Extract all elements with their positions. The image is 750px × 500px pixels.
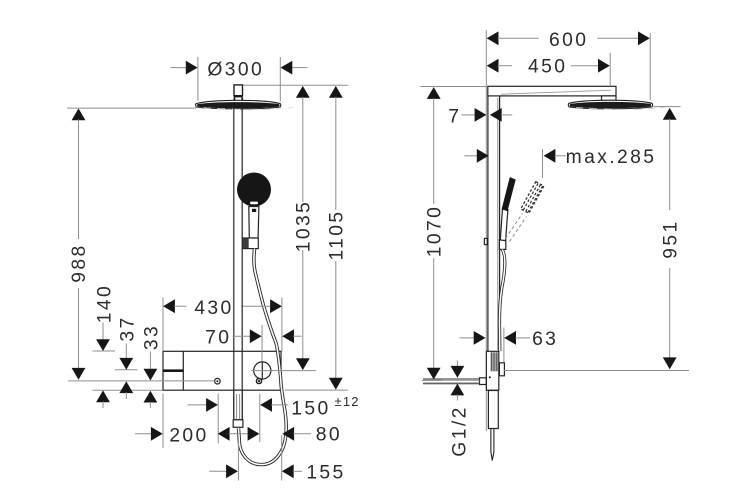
svg-text:450: 450 xyxy=(528,57,567,78)
arm end connector (side) xyxy=(602,96,617,105)
svg-text:80: 80 xyxy=(316,424,342,445)
reference line at arm top (1035/1105 top) xyxy=(243,84,348,86)
svg-text:63: 63 xyxy=(532,329,558,350)
svg-text:±12: ±12 xyxy=(335,394,360,409)
dimension 450 xyxy=(487,53,611,86)
RIGHT VIEW DIMS xyxy=(420,30,689,457)
RIGHT VIEW PARTS xyxy=(423,30,665,461)
hose outlet stub below bar (front) xyxy=(233,390,243,427)
reference line thick-line level extended (37 top stub) xyxy=(115,369,138,371)
svg-text:37: 37 xyxy=(117,315,138,341)
svg-text:Ø300: Ø300 xyxy=(207,59,264,80)
dimension 7 xyxy=(448,107,512,128)
dimension max.285 xyxy=(465,147,657,178)
reference line at head underside (988 top) xyxy=(67,107,196,109)
LEFT VIEW PARTS xyxy=(163,85,293,465)
dimension 1070 xyxy=(420,87,486,381)
dimension 155 xyxy=(209,435,345,483)
dimension G1/2 xyxy=(450,361,471,457)
riser pipe (side) xyxy=(488,96,500,351)
svg-text:70: 70 xyxy=(205,328,231,349)
reference line bar top stub (140 top) xyxy=(92,350,115,352)
block front handle (side) xyxy=(499,363,504,376)
svg-text:7: 7 xyxy=(448,107,461,128)
wall clip (side) xyxy=(484,238,487,244)
riser pipe (front) xyxy=(234,108,242,420)
dimension 430 xyxy=(163,298,282,352)
hand shower hose (side) xyxy=(499,250,504,352)
dimension 1035 xyxy=(294,86,315,370)
hand shower holder (side) xyxy=(499,240,505,250)
svg-text:600: 600 xyxy=(549,30,588,51)
dimension Ø300 xyxy=(171,57,308,102)
svg-text:951: 951 xyxy=(660,219,681,258)
dimension 951 xyxy=(504,107,689,371)
svg-text:988: 988 xyxy=(69,243,90,282)
reference line knob centerline (1035 bottom) xyxy=(251,370,316,372)
hose tail below block (side) xyxy=(491,429,494,461)
svg-text:G1/2: G1/2 xyxy=(450,405,471,456)
dimension 37 xyxy=(117,315,138,399)
hand shower handle (front) xyxy=(249,207,259,239)
overhead shower head disc (side) xyxy=(568,100,665,109)
dimension 33 xyxy=(141,324,162,408)
hand shower solid position (side) xyxy=(500,177,515,241)
svg-text:1035: 1035 xyxy=(294,200,315,253)
supply pipe G1/2 (side) xyxy=(423,379,480,384)
LEFT VIEW DIMS xyxy=(67,57,360,483)
svg-text:200: 200 xyxy=(169,425,208,446)
svg-text:1070: 1070 xyxy=(425,205,446,258)
dimension 200 and 80 xyxy=(135,394,342,449)
reference line bar bottom extended left xyxy=(92,389,163,391)
svg-text:1105: 1105 xyxy=(327,209,348,260)
supply nub (side) xyxy=(480,378,487,385)
hand shower holder (front) xyxy=(243,238,258,249)
reference line bar bottom right (1105 bottom) xyxy=(285,389,348,391)
thermostat block (side) xyxy=(486,351,498,390)
control knob on bar (front) xyxy=(254,361,271,379)
small index circle on bar xyxy=(215,378,221,384)
shower arm (side) xyxy=(488,86,616,96)
svg-text:150: 150 xyxy=(291,399,330,420)
dimension 150 +/-12 xyxy=(188,394,360,444)
thermostat bar (front) xyxy=(163,351,281,390)
small outlet circle below knob xyxy=(256,378,261,383)
shower hose (front) xyxy=(239,249,287,465)
svg-text:140: 140 xyxy=(94,284,115,323)
dimension 70 xyxy=(205,325,301,361)
svg-text:max.285: max.285 xyxy=(566,147,657,168)
overhead shower arm connector (front) xyxy=(234,85,243,101)
wall line (side) xyxy=(485,30,487,431)
dimension 140 xyxy=(94,284,115,408)
dimension 1105 xyxy=(327,86,348,390)
dimension 63 xyxy=(460,328,559,363)
reference line through index circle (988/37/33) xyxy=(68,380,215,382)
block lower cover (side) xyxy=(488,391,498,429)
dimension 988 xyxy=(69,108,90,379)
dimension 600 xyxy=(487,30,651,100)
svg-text:430: 430 xyxy=(194,298,233,319)
svg-text:33: 33 xyxy=(141,324,162,350)
hand shower ball (front) xyxy=(237,173,271,207)
overhead shower head disc (front) xyxy=(196,100,293,109)
svg-text:155: 155 xyxy=(306,462,345,483)
pipe over bar (front) xyxy=(234,351,242,390)
hand shower max position dashed (side) xyxy=(506,182,544,242)
